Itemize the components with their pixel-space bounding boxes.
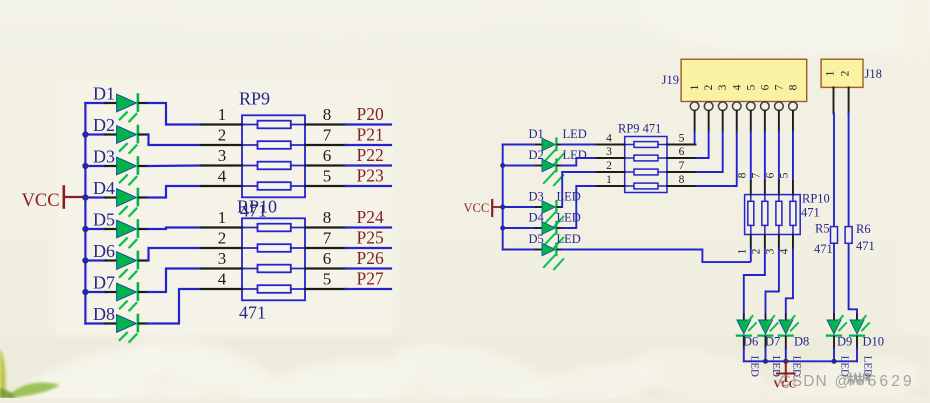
- LED D7 (left schematic): [85, 273, 147, 312]
- svg-text:J18: J18: [865, 67, 882, 81]
- power port VCC (right): [464, 200, 503, 216]
- LED D5 (right schematic): [503, 232, 581, 270]
- junction on left bus at D3: [82, 163, 88, 169]
- svg-text:7: 7: [323, 229, 332, 248]
- LED D2 (right schematic): [503, 148, 587, 186]
- wire RP10 pin2 to D6: [744, 249, 765, 315]
- svg-text:7: 7: [750, 172, 762, 178]
- wire D2 to RP9 pin3: [561, 158, 596, 166]
- svg-text:1: 1: [825, 70, 837, 76]
- RP10-left pin 1 (left): [201, 208, 242, 228]
- RP9-left pin 5 (right): [305, 167, 345, 187]
- wire D7 to RP10 pin3: [147, 269, 201, 293]
- RP9-right pin 6 (right): [667, 146, 696, 158]
- wire D4 to RP9 pin1: [561, 186, 596, 228]
- wire J19 pin3 to RP9 pin7: [696, 131, 723, 172]
- LED D9 (bottom, pointing down): [827, 315, 852, 378]
- svg-text:4: 4: [218, 270, 227, 289]
- resistor pack RP9 (left) label: [239, 89, 270, 109]
- RP10-right pin 3 (bottom): [764, 235, 779, 255]
- wire/net P21: [345, 125, 391, 146]
- svg-text:P23: P23: [357, 166, 384, 186]
- RP9-left resistor element 4: [242, 182, 305, 190]
- LED D6 (left schematic): [85, 241, 147, 280]
- svg-text:D7: D7: [93, 273, 115, 293]
- wire J18 pin2 to R6: [848, 114, 850, 227]
- RP9-left pin 7 (right): [305, 126, 345, 146]
- RP10-left pin 2 (left): [201, 229, 242, 249]
- wire: left VCC bus vertical: [84, 103, 86, 324]
- svg-text:RP10: RP10: [802, 192, 830, 206]
- RP10-left resistor element 4: [242, 285, 305, 293]
- resistor pack RP10-left body: [242, 218, 305, 300]
- RP10-right pin 4 (bottom): [778, 235, 793, 255]
- J19 pin 5 circle and stub: [747, 102, 756, 131]
- watermark CSDN: [780, 373, 915, 391]
- svg-text:R5: R5: [815, 222, 830, 236]
- RP10-right pin 6 (top): [764, 172, 779, 194]
- wire D3 to RP9 pin3: [147, 164, 201, 167]
- svg-text:RP10: RP10: [237, 197, 277, 217]
- svg-text:5: 5: [745, 84, 757, 90]
- RP10-left pin 5 (right): [305, 270, 345, 290]
- J19 pin 2 circle and stub: [704, 102, 713, 131]
- R5 value 471: [814, 242, 833, 256]
- svg-text:6629: 6629: [868, 373, 915, 390]
- junction on right bus at D2: [500, 163, 505, 168]
- wire RP10 pin4 to D8: [786, 249, 793, 315]
- J19 pin number 1: [689, 84, 701, 90]
- svg-text:6: 6: [764, 172, 776, 178]
- svg-text:D1: D1: [529, 127, 544, 141]
- RP9-right pin 4 (left): [597, 133, 625, 145]
- svg-text:2: 2: [840, 70, 852, 76]
- svg-text:6: 6: [323, 146, 332, 165]
- svg-text:5: 5: [323, 270, 332, 289]
- svg-text:5: 5: [323, 167, 332, 186]
- svg-text:D5: D5: [529, 232, 544, 246]
- svg-text:4: 4: [778, 248, 790, 254]
- LED D8 (left schematic): [85, 304, 147, 343]
- wire: bottom VCC bus: [744, 360, 857, 362]
- svg-text:1: 1: [218, 105, 227, 124]
- wire R6 to D10: [849, 243, 857, 314]
- svg-text:P25: P25: [357, 228, 384, 248]
- junction on left bus at D4: [82, 194, 88, 200]
- RP10-left pin 4 (left): [201, 270, 242, 290]
- RP9-right pin 2 (left): [597, 160, 625, 172]
- svg-text:VCC: VCC: [464, 201, 490, 215]
- svg-text:D8: D8: [93, 304, 115, 324]
- RP9-right pin 1 (left): [597, 174, 625, 186]
- resistor pack RP9-left body: [242, 115, 305, 197]
- svg-text:471: 471: [814, 242, 833, 256]
- wire/net P20: [345, 104, 391, 125]
- wire J19 pin2 to RP9 pin6: [696, 131, 709, 158]
- resistor pack RP10 (left) label: [237, 197, 277, 217]
- RP10-left pin 6 (right): [305, 249, 345, 269]
- junction bottom bus at D8: [783, 359, 788, 364]
- J19 pin 6 circle and stub: [761, 102, 770, 131]
- LED D10 (bottom, pointing down): [850, 315, 884, 378]
- RP10-left resistor element 2: [242, 244, 305, 252]
- svg-text:4: 4: [218, 167, 227, 186]
- junction on left bus at D5: [82, 226, 88, 232]
- J19 pin 4 circle and stub: [732, 102, 741, 131]
- svg-text:1: 1: [218, 208, 227, 227]
- J19 pin number 2: [703, 84, 715, 90]
- svg-text:P24: P24: [357, 207, 384, 227]
- wire J18 pin1 to R5: [833, 114, 835, 227]
- RP10-left pin 3 (left): [201, 249, 242, 269]
- connector J19 label: [662, 73, 679, 87]
- svg-text:2: 2: [218, 126, 227, 145]
- wire D6 to RP10 pin2: [147, 248, 201, 261]
- J19 pin number 5: [745, 84, 757, 90]
- RP10 (right) label: [802, 192, 830, 206]
- RP9-right resistor element 2: [625, 155, 667, 161]
- power port VCC (bottom): [774, 361, 797, 390]
- RP10 value 471: [239, 303, 266, 323]
- connector J18 body: [821, 59, 863, 87]
- svg-text:RP9: RP9: [239, 89, 270, 109]
- LED D7 (bottom, pointing down): [759, 315, 783, 378]
- J18 pin number 1: [825, 70, 837, 76]
- svg-text:P27: P27: [357, 269, 384, 289]
- svg-text:R6: R6: [856, 222, 871, 236]
- svg-text:6: 6: [323, 249, 332, 268]
- wire D4 to RP9 pin4: [147, 186, 201, 198]
- junction on left bus at D7: [82, 289, 88, 295]
- svg-text:LED: LED: [563, 127, 587, 141]
- svg-text:6: 6: [679, 146, 685, 158]
- RP10-right pin 1 (bottom): [736, 235, 751, 255]
- wire J19 pin8 to RP10 pin5: [792, 131, 794, 181]
- svg-text:P26: P26: [357, 248, 384, 268]
- svg-text:471: 471: [856, 239, 875, 253]
- J19 pin 7 circle and stub: [775, 102, 784, 131]
- wire D2 to RP9 pin2: [147, 135, 201, 146]
- svg-text:D2: D2: [529, 148, 544, 162]
- svg-text:7: 7: [323, 126, 332, 145]
- RP10-left resistor element 1: [242, 224, 305, 232]
- resistor R5: [815, 222, 838, 244]
- LED D4 (right schematic): [503, 211, 581, 249]
- RP9-right resistor element 3: [625, 169, 667, 175]
- wire D3 to RP9 pin2: [561, 172, 596, 207]
- wire RP10 pin3 to D7: [766, 249, 779, 315]
- wire RP10 pin1 to D5 net: [750, 249, 752, 263]
- LED D3 (left schematic): [85, 147, 147, 186]
- RP9-left resistor element 2: [242, 141, 305, 149]
- svg-text:D8: D8: [794, 335, 809, 349]
- RP9-left resistor element 3: [242, 162, 305, 170]
- RP9-right resistor element 4: [625, 183, 667, 189]
- svg-text:7: 7: [773, 84, 785, 90]
- svg-text:3: 3: [717, 84, 729, 90]
- svg-text:2: 2: [750, 248, 762, 254]
- RP9-right pin 3 (left): [597, 146, 625, 158]
- svg-text:D5: D5: [93, 210, 115, 230]
- RP10-right resistor element 1: [748, 195, 754, 235]
- junction on right bus at D4: [500, 226, 505, 231]
- svg-text:D2: D2: [93, 115, 115, 135]
- junction bottom bus at D7: [763, 359, 768, 364]
- RP10-left resistor element 3: [242, 265, 305, 273]
- wire J19 pin4 to RP9 pin8: [696, 131, 737, 186]
- junction on left bus at D2: [82, 131, 88, 137]
- RP10-left pin 7 (right): [305, 229, 345, 249]
- svg-text:LED: LED: [563, 148, 587, 162]
- RP10-right pin 5 (top): [778, 172, 793, 194]
- svg-text:P22: P22: [357, 145, 384, 165]
- svg-text:1: 1: [606, 174, 612, 186]
- svg-text:6: 6: [759, 84, 771, 90]
- svg-text:D6: D6: [93, 241, 115, 261]
- wire/net P26: [345, 248, 391, 269]
- wire J19 pin6 to RP10 pin7: [764, 131, 766, 181]
- LED D2 (left schematic): [85, 115, 147, 154]
- svg-text:8: 8: [787, 84, 799, 90]
- LED D8 (bottom, pointing down): [779, 315, 809, 378]
- junction on left bus at D6: [82, 257, 88, 263]
- wire D5 to RP10 pin1: [147, 228, 201, 230]
- RP10 (right) value 471: [801, 206, 820, 220]
- svg-text:8: 8: [736, 172, 748, 178]
- J19 pin 3 circle and stub: [718, 102, 727, 131]
- RP9-left pin 3 (left): [201, 146, 242, 166]
- wire D8 to RP10 pin4: [147, 289, 201, 324]
- R6 value 471: [856, 239, 875, 253]
- svg-text:RP9 471: RP9 471: [618, 122, 661, 136]
- wire/net P27: [345, 269, 391, 290]
- RP10-left pin 8 (right): [305, 208, 345, 228]
- RP9-right pin 8 (right): [667, 174, 696, 186]
- svg-text:P21: P21: [357, 125, 384, 145]
- svg-text:471: 471: [239, 303, 266, 323]
- svg-text:D4: D4: [93, 178, 115, 198]
- svg-text:J19: J19: [662, 73, 679, 87]
- svg-text:2: 2: [218, 229, 227, 248]
- wire J19 pin5 to RP10 pin8: [750, 131, 752, 181]
- svg-text:8: 8: [323, 105, 332, 124]
- RP9-right pin 5 (right): [667, 133, 696, 145]
- svg-text:5: 5: [679, 133, 685, 145]
- svg-text:D3: D3: [93, 147, 115, 167]
- svg-text:1: 1: [689, 84, 701, 90]
- wire R5 to D9: [833, 243, 835, 314]
- RP9-left pin 2 (left): [201, 126, 242, 146]
- RP9-left resistor element 1: [242, 121, 305, 129]
- svg-text:2: 2: [703, 84, 715, 90]
- svg-text:471: 471: [801, 206, 820, 220]
- resistor pack RP10 (right) body: [745, 195, 801, 235]
- RP9-left pin 4 (left): [201, 167, 242, 187]
- J18 pin number 2: [840, 70, 852, 76]
- svg-text:P20: P20: [357, 104, 384, 124]
- J19 pin number 6: [759, 84, 771, 90]
- svg-text:D10: D10: [863, 335, 885, 349]
- wire/net P22: [345, 145, 391, 166]
- J18 pin 1 stub: [833, 87, 835, 113]
- svg-text:7: 7: [679, 160, 685, 172]
- RP10-right pin 2 (bottom): [750, 235, 765, 255]
- svg-text:3: 3: [606, 146, 612, 158]
- svg-text:D6: D6: [743, 335, 758, 349]
- wire D1 to RP9 pin4: [561, 144, 596, 146]
- RP10-right resistor element 4: [790, 195, 796, 235]
- RP9-left pin 8 (right): [305, 105, 345, 125]
- J18 pin 2 stub: [848, 87, 850, 113]
- LED D1 (right schematic): [503, 127, 587, 165]
- wire D1 to RP9 pin1: [147, 103, 201, 125]
- RP9-right resistor element 1: [625, 142, 667, 148]
- svg-text:D3: D3: [529, 190, 544, 204]
- RP9-right pin 7 (right): [667, 160, 696, 172]
- RP10-right resistor element 3: [776, 195, 782, 235]
- RP10-right resistor element 2: [762, 195, 768, 235]
- svg-text:D1: D1: [93, 84, 115, 104]
- svg-text:3: 3: [764, 248, 776, 254]
- RP9-left pin 1 (left): [201, 105, 242, 125]
- RP10-right pin 7 (top): [750, 172, 765, 194]
- svg-text:1: 1: [736, 248, 748, 254]
- resistor R6: [845, 222, 870, 243]
- junction bottom bus at D9: [832, 359, 837, 364]
- wire J19 pin7 to RP10 pin6: [778, 131, 780, 181]
- J19 pin 1 circle and stub: [690, 102, 699, 131]
- svg-text:8: 8: [679, 174, 685, 186]
- J19 pin number 7: [773, 84, 785, 90]
- J19 pin 8 circle and stub: [789, 102, 798, 131]
- J19 pin number 3: [717, 84, 729, 90]
- LED D6 (bottom, pointing down): [737, 315, 761, 378]
- svg-text:3: 3: [218, 249, 227, 268]
- junction on right bus at VCC/D3: [500, 205, 505, 210]
- RP9 value 471 (overlaps RP10 label): [240, 201, 267, 221]
- connector J19 body: [681, 59, 807, 101]
- connector J18 label: [865, 67, 882, 81]
- svg-text:3: 3: [218, 146, 227, 165]
- LED D3 (right schematic): [503, 190, 581, 228]
- wire: right VCC bus vertical: [502, 145, 504, 250]
- resistor pack RP9 (right) body: [625, 137, 667, 193]
- svg-text:LED: LED: [557, 232, 581, 246]
- svg-text:CSDN: CSDN: [780, 373, 828, 390]
- svg-text:4: 4: [731, 84, 743, 90]
- RP10-right pin 8 (top): [736, 172, 751, 194]
- LED D4 (left schematic): [85, 178, 147, 217]
- wire J19 pin1 to RP9 pin5: [694, 131, 696, 145]
- wire/net P24: [345, 207, 391, 228]
- svg-text:5: 5: [778, 172, 790, 178]
- power port VCC (left): [22, 187, 86, 212]
- svg-text:LED: LED: [748, 356, 760, 377]
- LED D1 (left schematic): [85, 84, 147, 123]
- RP9-left pin 6 (right): [305, 146, 345, 166]
- J19 pin number 8: [787, 84, 799, 90]
- J19 pin number 4: [731, 84, 743, 90]
- resistor pack RP9 471 (right) label: [618, 122, 661, 136]
- svg-text:VCC: VCC: [22, 191, 60, 211]
- svg-text:8: 8: [323, 208, 332, 227]
- svg-text:2: 2: [606, 160, 612, 172]
- wire/net P23: [345, 166, 391, 187]
- wire/net P25: [345, 228, 391, 249]
- LED D5 (left schematic): [85, 210, 147, 249]
- svg-text:4: 4: [606, 133, 612, 145]
- wire D5 to RP10 pin1: [561, 250, 751, 263]
